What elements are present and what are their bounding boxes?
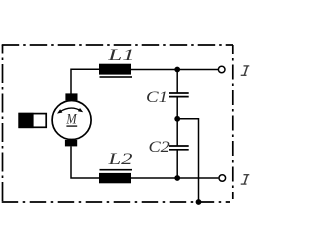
motor top brush <box>65 93 77 100</box>
svg-text:L2: L2 <box>107 151 132 168</box>
wire: L1 left to motor top <box>71 69 99 93</box>
rotation arrow (double headed arc) <box>57 108 83 114</box>
wire: middle node jog right and down to shield <box>177 119 198 202</box>
label I (top terminal) <box>241 66 250 75</box>
svg-text:C2: C2 <box>149 139 170 156</box>
svg-text:C1: C1 <box>146 89 168 106</box>
capacitor C1 <box>169 93 189 97</box>
wire: top node down through C1 region <box>176 70 178 93</box>
svg-text:M: M <box>65 112 77 128</box>
motor bottom brush <box>65 140 77 147</box>
wire: middle node down to C2 <box>176 119 178 146</box>
wire: C2 bottom to bottom wire <box>176 150 178 178</box>
inductor L2 (suppression choke, solid body) <box>99 169 132 183</box>
terminal 2 (bottom output) <box>219 175 226 182</box>
wire: L2 right to terminal 2 <box>131 177 218 179</box>
wire: C1 bottom to middle node <box>176 97 178 119</box>
node C (bottom junction) <box>174 175 180 181</box>
permanent magnet (stator, half filled) <box>18 113 46 128</box>
motor M1 (DC motor body) <box>52 101 91 140</box>
shield enclosure border (dash-dot chain line) <box>2 45 233 203</box>
capacitor C2 <box>169 146 189 150</box>
label I (bottom terminal) <box>241 175 250 184</box>
inductor L1 (suppression choke, solid body) <box>99 64 132 78</box>
svg-text:L1: L1 <box>107 47 135 64</box>
wire: motor bottom to L2 left <box>71 146 99 178</box>
node D (shield junction on border) <box>196 199 202 205</box>
label M (motor letter, underlined) <box>65 112 77 128</box>
wire: L1 right to terminal 1 <box>131 69 218 71</box>
node B (middle junction) <box>174 116 180 122</box>
terminal 1 (top output) <box>218 66 225 73</box>
node A (top junction) <box>174 67 180 73</box>
